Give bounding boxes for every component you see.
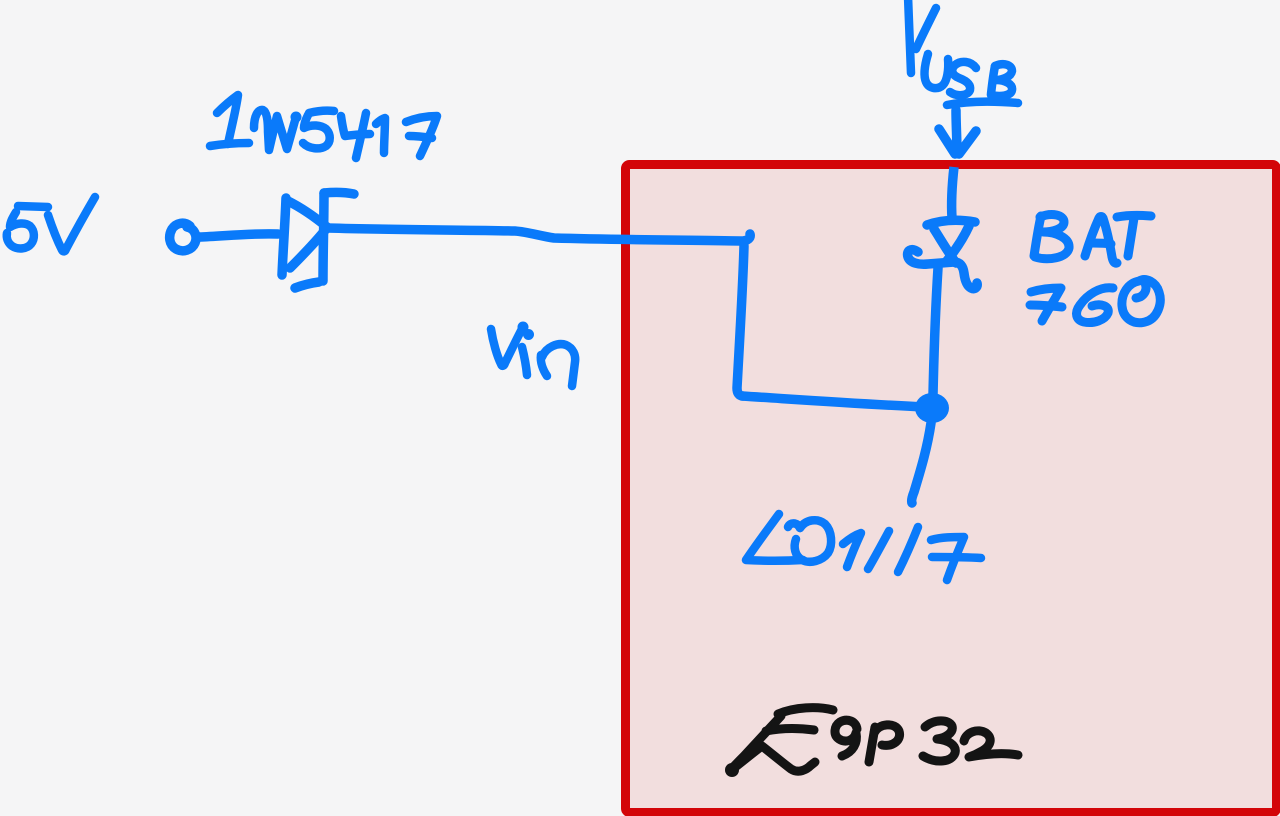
wire into box top (952, 167, 954, 218)
cathode top tick (324, 192, 354, 194)
anode bar (927, 220, 975, 225)
triangle right side (946, 226, 969, 262)
schottky cathode bar (908, 250, 978, 289)
label Vin (491, 322, 575, 387)
wire diode to Vin corner (327, 228, 750, 241)
schottky diode D2 BAT760 (908, 220, 978, 288)
triangle bottom edge (290, 229, 326, 268)
label 1N5417 (210, 95, 437, 158)
label V_USB (908, 0, 1018, 105)
ESP32 module box (626, 165, 1277, 813)
arrow V_USB down (939, 110, 976, 154)
wire junction down to regulator (912, 423, 931, 503)
terminal circle (170, 223, 196, 251)
anode bar (282, 198, 286, 275)
label LD1117 (746, 514, 981, 580)
triangle top edge (288, 201, 327, 227)
label Esp32 (black) (725, 708, 1018, 777)
wire terminal to diode (199, 234, 278, 237)
label 760 (1030, 280, 1160, 323)
label BAT (1034, 215, 1151, 264)
wire corner vertical (737, 246, 744, 396)
diode D1 1N5417 (282, 192, 354, 288)
wire corner horizontal to junction (742, 396, 925, 407)
junction node (915, 393, 949, 423)
triangle left side (934, 229, 956, 263)
wire D2 to junction (933, 268, 938, 395)
cathode bottom tick (295, 282, 319, 288)
node 5V label (7, 197, 95, 251)
cathode bar (323, 193, 324, 281)
